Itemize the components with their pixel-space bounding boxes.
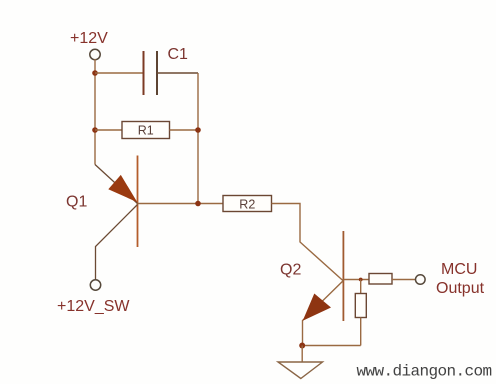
value label R2 <box>239 198 255 212</box>
resistor R2 <box>223 196 272 212</box>
wire Q1 base to R2 <box>138 203 224 205</box>
wire output resistor to MCU terminal <box>392 279 416 281</box>
svg-text:+12V_SW: +12V_SW <box>57 298 130 315</box>
wire junction down to pulldown resistor <box>360 280 362 294</box>
ref label Q1 <box>66 194 87 211</box>
node junction emitter / bottom rail / ground <box>299 343 305 349</box>
transistor Q1 emitter arrow <box>108 175 137 202</box>
net label +12V <box>70 30 108 47</box>
svg-text:C1: C1 <box>168 46 189 63</box>
resistor pulldown <box>355 294 366 318</box>
terminal +12V <box>90 49 100 59</box>
wire pulldown resistor to bottom rail <box>360 318 362 346</box>
capacitor C1 <box>144 51 158 95</box>
svg-text:R2: R2 <box>239 198 255 212</box>
terminal +12V_SW <box>90 280 100 290</box>
svg-text:R1: R1 <box>138 124 154 138</box>
transistor Q1 collector wire <box>96 205 138 281</box>
net label +12V_SW <box>57 298 130 315</box>
svg-text:Output: Output <box>436 280 485 297</box>
node junction base node / right rail <box>195 201 201 207</box>
svg-text:Q2: Q2 <box>280 262 301 279</box>
svg-text:+12V: +12V <box>70 30 108 47</box>
node junction output / pulldown resistor <box>359 278 363 282</box>
node junction right rail / R1 <box>195 127 201 133</box>
transistor Q1 base bar <box>137 156 139 248</box>
terminal MCU Output <box>416 275 426 285</box>
net label MCU Output <box>436 261 485 297</box>
value label C1 <box>168 46 189 63</box>
transistor Q2 emitter arrow <box>303 294 331 321</box>
transistor Q2 collector wire to output <box>343 279 369 281</box>
resistor series output <box>369 274 392 285</box>
wire bottom rail emitter to pulldown <box>303 345 361 347</box>
resistor R1 <box>122 122 170 139</box>
wire ground drop <box>301 346 303 363</box>
wire left rail from +12V terminal down to Q1 emitter <box>94 59 96 165</box>
ground <box>278 362 323 379</box>
node junction at +12V rail / C1 <box>92 70 98 76</box>
node junction left rail / R1 <box>92 127 98 133</box>
wire from +12V rail to C1 left plate <box>95 72 144 74</box>
ref label Q2 <box>280 262 301 279</box>
wire from C1 right plate to right rail <box>157 72 198 74</box>
transistor Q2 base bar <box>342 231 344 321</box>
watermark www.diangon.com <box>357 363 492 381</box>
wire R2 to Q2 base <box>272 204 344 282</box>
wire left rail to R1 <box>95 129 122 131</box>
svg-text:www.diangon.com: www.diangon.com <box>357 363 492 381</box>
svg-text:MCU: MCU <box>441 261 477 278</box>
wire right rail from C1 down to Q1 base node <box>197 73 199 204</box>
wire R1 to right rail <box>170 129 199 131</box>
svg-text:Q1: Q1 <box>66 194 87 211</box>
transistor Q1 emitter wire <box>95 165 138 204</box>
value label R1 <box>138 124 154 138</box>
transistor Q2 emitter wire <box>303 281 344 346</box>
